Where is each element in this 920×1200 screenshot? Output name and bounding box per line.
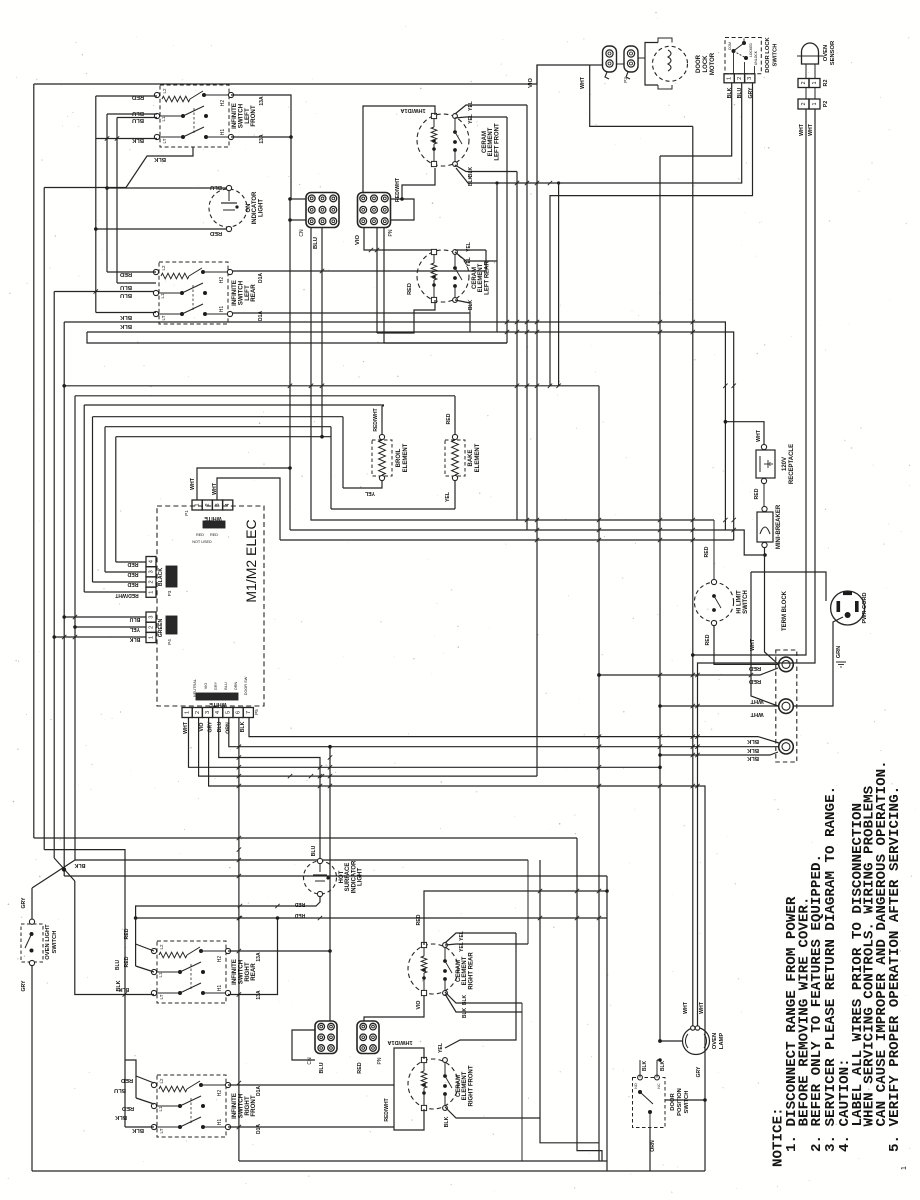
svg-text:MINI-BREAKER: MINI-BREAKER — [776, 504, 782, 549]
wire P5 pin4 BLU to hot surface light — [219, 718, 320, 862]
svg-text:WHT: WHT — [212, 482, 218, 495]
svg-text:2: 2 — [149, 626, 155, 629]
svg-text:1: 1 — [149, 591, 155, 594]
svg-text:BLU: BLU — [311, 845, 317, 856]
svg-text:CERAM: CERAM — [456, 960, 462, 982]
CN lower left loop — [292, 1030, 315, 1060]
svg-text:YEL: YEL — [459, 931, 465, 941]
connector CN lower — [307, 1021, 337, 1065]
oven sensor — [797, 40, 836, 65]
wire bottom bus BLK — [32, 1170, 705, 1172]
wire WHT drop — [590, 65, 693, 126]
svg-text:P2: P2 — [623, 77, 628, 83]
ceramic element left front — [417, 113, 500, 166]
svg-text:YEL: YEL — [468, 114, 474, 124]
svg-text:WHITE: WHITE — [204, 515, 222, 521]
door lock switch — [725, 36, 779, 73]
wires into right front switch — [125, 1060, 136, 1098]
svg-text:4: 4 — [225, 503, 231, 506]
svg-text:7: 7 — [246, 711, 252, 714]
hot surface indicator light — [304, 858, 364, 896]
svg-text:BLK: BLK — [468, 299, 474, 310]
wire GRY door lock staircase — [550, 83, 753, 386]
svg-text:P1: P1 — [184, 510, 189, 516]
svg-text:BLU: BLU — [210, 184, 222, 190]
bus y849 — [44, 850, 125, 860]
svg-text:VIO: VIO — [416, 1001, 422, 1010]
bus y415 — [93, 416, 344, 418]
svg-text:HI LIMIT: HI LIMIT — [737, 590, 743, 614]
svg-text:1: 1 — [812, 102, 818, 105]
wire P5 pin7 BLK to term block — [249, 718, 779, 744]
svg-text:RED: RED — [446, 413, 452, 424]
wire P2 sensor WHT 2 — [698, 109, 816, 1027]
svg-text:CN: CN — [299, 229, 305, 237]
wire receptacle to breaker RED — [763, 483, 765, 506]
svg-text:GREEN: GREEN — [158, 619, 164, 638]
svg-text:YEL: YEL — [468, 101, 474, 111]
svg-text:OVEN: OVEN — [712, 1033, 718, 1049]
crossing hops in P5 area — [237, 745, 241, 749]
wire top horizontal from corner — [34, 83, 537, 85]
svg-text:NC: NC — [657, 1083, 661, 1089]
svg-text:RED: RED — [124, 956, 130, 967]
svg-text:WHT: WHT — [808, 123, 814, 136]
wire WHT long vertical to oven lamp — [692, 126, 694, 1027]
wire P5 pin2 VIO — [199, 718, 537, 777]
left verticals bundle — [43, 188, 45, 850]
svg-text:BLK: BLK — [119, 314, 132, 320]
svg-text:WHT: WHT — [699, 1001, 705, 1014]
svg-text:1: 1 — [149, 636, 155, 639]
wire hi limit top RED — [713, 520, 715, 579]
svg-text:3: 3 — [205, 711, 211, 714]
connector P1 — [192, 500, 233, 510]
wire BLU door lock staircase to element — [456, 83, 742, 184]
wire x599 long vertical — [598, 386, 600, 1161]
svg-text:REAR: REAR — [250, 284, 257, 302]
svg-text:4: 4 — [215, 711, 221, 714]
wire elem LR outer loop — [384, 227, 507, 343]
svg-text:5. VERIFY PROPER OPERATION AFT: 5. VERIFY PROPER OPERATION AFTER SERVICI… — [887, 786, 903, 1152]
wire VIO elem RR to connector — [364, 994, 424, 1021]
svg-text:WHT: WHT — [750, 638, 756, 651]
svg-text:NO: NO — [634, 1083, 638, 1089]
svg-text:BLK: BLK — [131, 1127, 144, 1133]
svg-text:P3: P3 — [167, 590, 172, 596]
svg-text:FRONT: FRONT — [250, 1095, 257, 1117]
svg-text:3: 3 — [747, 77, 753, 80]
wire BLK bus stud3 — [660, 752, 778, 755]
connector P2 — [798, 99, 820, 109]
svg-text:3: 3 — [215, 503, 221, 506]
svg-text:L2: L2 — [159, 1078, 164, 1084]
wire H2 right front — [228, 1084, 394, 1086]
bus y436 — [116, 436, 331, 438]
svg-text:RED/WHT: RED/WHT — [115, 592, 138, 598]
svg-text:LAMP: LAMP — [719, 1033, 725, 1050]
svg-text:D1A: D1A — [256, 1086, 262, 1096]
svg-text:LT: LT — [162, 138, 167, 143]
svg-text:2: 2 — [195, 711, 201, 714]
svg-text:1HW/D1A: 1HW/D1A — [400, 107, 425, 113]
svg-text:BLK: BLK — [746, 738, 759, 744]
wire CN pin to bus — [321, 227, 323, 437]
svg-text:WHT: WHT — [683, 1001, 689, 1014]
svg-text:BLK: BLK — [153, 156, 166, 162]
svg-text:VIO: VIO — [204, 683, 208, 690]
wire x607 — [606, 876, 608, 1171]
svg-text:RIGHT REAR: RIGHT REAR — [468, 952, 474, 990]
svg-text:13A: 13A — [259, 96, 265, 106]
connector PN lower — [357, 1021, 383, 1064]
door position switch — [633, 1075, 691, 1127]
svg-text:BLU: BLU — [132, 110, 144, 116]
svg-text:PN: PN — [377, 1057, 383, 1064]
svg-text:D1A: D1A — [256, 1124, 262, 1134]
connector P5 — [182, 708, 253, 718]
svg-text:ELEMENT: ELEMENT — [462, 1071, 468, 1100]
svg-text:LOCKED: LOCKED — [749, 42, 753, 56]
wire broil bottom — [343, 481, 382, 488]
wire plugs — [617, 63, 625, 65]
svg-text:BLACK: BLACK — [158, 568, 164, 586]
svg-text:2: 2 — [737, 77, 743, 80]
connector PN — [358, 193, 395, 237]
svg-text:1: 1 — [727, 77, 733, 80]
svg-text:H1: H1 — [217, 1119, 223, 1126]
svg-text:BLU: BLU — [319, 1062, 325, 1073]
svg-text:INDICATOR: INDICATOR — [351, 860, 357, 893]
wire RED/WHT from element — [402, 168, 435, 199]
svg-text:BLK: BLK — [642, 1060, 648, 1071]
svg-text:M1/M2 ELEC: M1/M2 ELEC — [243, 519, 259, 602]
wire bottom-right wrap — [540, 860, 599, 1143]
svg-text:RED: RED — [121, 1077, 133, 1083]
wire P2 sensor WHT 1 — [693, 109, 806, 655]
svg-text:2: 2 — [801, 102, 807, 105]
wire RED bus y918 — [136, 917, 607, 919]
svg-text:YEL: YEL — [466, 257, 472, 267]
wire H1 right front — [228, 1126, 394, 1128]
svg-text:BLK: BLK — [444, 1116, 450, 1127]
bus y520 — [311, 227, 714, 520]
svg-text:VIO: VIO — [355, 235, 361, 245]
svg-text:OVEN: OVEN — [823, 45, 829, 61]
infinite switch left rear — [153, 262, 264, 324]
svg-text:RED: RED — [416, 914, 422, 925]
svg-text:1HW/D1A: 1HW/D1A — [387, 1039, 412, 1045]
wire PN loop bottom — [376, 227, 378, 333]
bus y838 — [34, 837, 577, 839]
svg-text:H2: H2 — [219, 277, 225, 284]
wire bus RED to stud1 — [599, 668, 778, 675]
svg-text:2: 2 — [801, 81, 807, 84]
svg-text:LIGHT: LIGHT — [358, 868, 364, 886]
wire BLK center long vertical — [659, 156, 661, 1041]
wire LR H1 wrap y332 — [87, 313, 470, 332]
svg-text:ELEMENT: ELEMENT — [488, 127, 494, 156]
svg-text:YEL: YEL — [445, 491, 451, 502]
wires indicator light — [107, 187, 226, 189]
svg-text:LEFT FRONT: LEFT FRONT — [494, 123, 500, 161]
svg-text:BLK: BLK — [119, 323, 132, 329]
svg-text:120V: 120V — [782, 457, 788, 471]
svg-text:GRY: GRY — [21, 897, 27, 909]
svg-text:BLU: BLU — [115, 959, 121, 970]
svg-text:RED: RED — [132, 94, 144, 100]
wire VIO PN to left rear element — [364, 227, 431, 250]
bus y530 — [290, 530, 765, 555]
svg-text:RED: RED — [704, 546, 710, 557]
svg-text:ORN: ORN — [234, 682, 238, 691]
svg-text:2: 2 — [205, 503, 211, 506]
svg-text:WHITE: WHITE — [209, 701, 227, 707]
svg-text:1: 1 — [195, 503, 201, 506]
wires BLK elem LF — [455, 165, 517, 172]
svg-text:SWITCH: SWITCH — [52, 931, 58, 954]
svg-text:ELEMENT: ELEMENT — [475, 443, 481, 472]
svg-text:RED/WHT: RED/WHT — [373, 408, 379, 431]
svg-text:TERM BLOCK: TERM BLOCK — [782, 590, 788, 631]
term block — [776, 590, 797, 762]
svg-text:D1A: D1A — [258, 273, 264, 283]
wires P1 WHT — [197, 468, 290, 500]
wire x125 lower — [124, 860, 126, 1127]
wire elem LF left rect — [363, 106, 435, 193]
svg-text:WHT: WHT — [190, 477, 196, 490]
svg-text:BLU: BLU — [120, 284, 132, 290]
oven lamp — [683, 1026, 726, 1055]
wire H1 right rear — [228, 918, 278, 995]
mini breaker — [757, 504, 782, 549]
wire RED elem RR — [424, 891, 607, 945]
svg-text:1: 1 — [812, 81, 818, 84]
svg-text:3: 3 — [149, 570, 155, 573]
svg-text:REAR: REAR — [250, 963, 257, 981]
svg-text:13A: 13A — [256, 952, 262, 962]
svg-text:3: 3 — [149, 616, 155, 619]
svg-text:LIGHT: LIGHT — [258, 199, 264, 217]
svg-text:BAKE: BAKE — [468, 449, 474, 466]
wire BLK outer left vertical — [33, 84, 35, 838]
bus y426 — [105, 426, 331, 428]
wire RED lamp to switch — [137, 896, 320, 906]
wrap wires upper-left — [54, 291, 157, 293]
connector CN — [299, 193, 339, 237]
svg-text:L1: L1 — [160, 293, 165, 299]
wire wrap y322 long — [64, 322, 725, 530]
svg-text:SWITCH: SWITCH — [743, 590, 749, 614]
svg-text:5: 5 — [225, 711, 231, 714]
svg-text:BLK: BLK — [468, 166, 474, 177]
svg-text:BLK: BLK — [118, 986, 129, 992]
svg-text:P4: P4 — [167, 639, 172, 645]
wires YEL elem RR — [445, 933, 516, 943]
hi limit switch — [694, 579, 749, 625]
on indicator light — [209, 185, 264, 231]
svg-text:PN: PN — [388, 229, 394, 236]
svg-text:YEL: YEL — [438, 1042, 444, 1053]
svg-text:MOTOR: MOTOR — [710, 52, 716, 75]
bus y540 — [280, 539, 734, 541]
control board M1/M2 ELEC — [157, 506, 264, 706]
wire P5 pin3 GRY — [209, 718, 705, 1172]
wires P4 — [64, 616, 146, 618]
wire bake bottom YEL — [454, 481, 456, 509]
svg-text:CERAM: CERAM — [482, 131, 488, 153]
bus y406 — [84, 404, 384, 406]
wires YEL elem LF — [455, 105, 527, 114]
svg-text:ON: ON — [246, 204, 252, 213]
svg-text:BLU: BLU — [313, 237, 319, 249]
wire breaker to term block — [765, 547, 779, 664]
wire y343 wrap — [96, 342, 507, 344]
svg-text:LOCK: LOCK — [703, 55, 709, 73]
bus y385 — [64, 385, 599, 387]
svg-text:VIO: VIO — [199, 723, 205, 732]
svg-text:NEUTRAL: NEUTRAL — [193, 679, 197, 697]
svg-text:UNLOCK: UNLOCK — [754, 50, 758, 65]
wire receptacle top WHT — [725, 422, 764, 444]
svg-text:ELEMENT: ELEMENT — [403, 443, 409, 472]
svg-text:GRY: GRY — [748, 87, 754, 99]
wire P5 pin1 WHT — [189, 718, 661, 768]
svg-text:HOT: HOT — [339, 870, 345, 883]
wire BLK from X junction to right rear switch — [75, 881, 154, 995]
svg-text:L1: L1 — [158, 1106, 163, 1112]
broil element — [372, 434, 409, 480]
connector P4 — [146, 612, 156, 643]
svg-text:WHT: WHT — [750, 698, 764, 704]
svg-text:WHT: WHT — [580, 76, 586, 89]
svg-text:RED: RED — [407, 283, 413, 295]
svg-text:BLK: BLK — [746, 755, 759, 761]
svg-text:ELEMENT: ELEMENT — [462, 956, 468, 985]
svg-text:BLK: BLK — [746, 747, 759, 753]
door lock connector 1 2 3 — [724, 74, 755, 83]
svg-text:CN: CN — [307, 1057, 313, 1065]
svg-text:RED: RED — [124, 928, 130, 939]
wire GRY oven light switch feed — [31, 888, 33, 922]
svg-text:2: 2 — [149, 580, 155, 583]
svg-text:GRY: GRY — [21, 980, 27, 992]
svg-text:INDICATOR: INDICATOR — [252, 191, 258, 224]
svg-text:BLK: BLK — [468, 175, 474, 186]
svg-text:WHT: WHT — [799, 123, 805, 136]
connector P3 — [146, 557, 156, 598]
wire VIO long vertical — [536, 65, 538, 776]
svg-text:GRY: GRY — [696, 1066, 702, 1077]
power cord — [831, 591, 868, 625]
wires into left front switch — [96, 95, 157, 97]
svg-text:BLK: BLK — [114, 1114, 127, 1120]
svg-text:DOOR: DOOR — [696, 54, 702, 73]
bus y860 — [75, 859, 528, 861]
wire hi limit bottom RED — [714, 625, 778, 664]
svg-text:L1: L1 — [161, 116, 166, 122]
elem RF left rect RED/WHT — [394, 1048, 424, 1130]
wires door lock internal — [733, 51, 735, 74]
svg-text:YEL: YEL — [466, 242, 472, 252]
ceramic element right front — [408, 1057, 474, 1110]
svg-text:FRONT: FRONT — [250, 105, 257, 127]
svg-text:RED/WHT: RED/WHT — [395, 177, 401, 202]
svg-text:RECEPTACLE: RECEPTACLE — [789, 444, 795, 484]
svg-text:WHT: WHT — [750, 711, 764, 717]
wires BLK elem LR — [455, 300, 470, 303]
wires P3 — [116, 561, 146, 563]
wire y332 left hook — [87, 332, 96, 343]
svg-text:OVEN LIGHT: OVEN LIGHT — [45, 924, 51, 960]
wires BLK elem RR — [445, 992, 522, 1003]
notice text block — [771, 760, 904, 1167]
infinite switch left front — [154, 85, 265, 147]
oven light switch — [21, 919, 58, 966]
svg-text:LEFT REAR: LEFT REAR — [484, 261, 490, 295]
svg-text:DOOR LOCK: DOOR LOCK — [765, 36, 771, 72]
svg-text:BLK: BLK — [462, 994, 468, 1005]
bus y396 — [75, 395, 455, 397]
wire H2 left front to right — [231, 95, 291, 199]
svg-text:SURFACE: SURFACE — [345, 863, 351, 892]
bottom bus A — [239, 1160, 607, 1162]
wire oven lamp left — [660, 1040, 683, 1042]
svg-text:L1: L1 — [158, 972, 163, 978]
svg-text:BLU: BLU — [217, 721, 223, 732]
svg-text:1: 1 — [901, 1166, 908, 1170]
wires into right rear switch — [136, 906, 137, 966]
wire CN lower feed — [329, 747, 331, 1021]
junction X — [54, 858, 75, 881]
svg-text:POSITION: POSITION — [677, 1088, 683, 1116]
svg-text:L2: L2 — [159, 944, 164, 950]
infinite switch right front — [151, 1075, 262, 1137]
svg-text:R2: R2 — [823, 80, 829, 87]
svg-text:RED: RED — [294, 912, 305, 918]
svg-text:COM: COM — [728, 42, 732, 50]
svg-text:YEL: YEL — [459, 942, 465, 952]
wires CN left loop — [290, 198, 306, 200]
wire H1 left front — [231, 136, 291, 138]
svg-text:LT: LT — [161, 315, 166, 320]
bus y509 broil bake return — [331, 508, 455, 510]
wires into left rear switch — [107, 271, 156, 273]
svg-text:DOOR SW: DOOR SW — [244, 676, 248, 695]
svg-text:RIGHT FRONT: RIGHT FRONT — [468, 1065, 474, 1106]
svg-text:H2: H2 — [220, 100, 226, 107]
svg-text:H2: H2 — [217, 1090, 223, 1097]
wires YEL elem LR — [455, 249, 486, 251]
svg-text:BLK: BLK — [74, 862, 85, 868]
svg-text:13A: 13A — [259, 134, 265, 144]
svg-text:CERAM: CERAM — [472, 267, 478, 289]
svg-text:VIO: VIO — [528, 78, 534, 88]
wires PN right loop — [391, 199, 414, 220]
svg-text:YEL: YEL — [364, 490, 375, 496]
svg-text:LT: LT — [159, 1128, 164, 1133]
svg-text:1: 1 — [185, 711, 191, 714]
svg-text:NOT USED: NOT USED — [192, 540, 212, 544]
wire WHT bus stud2 — [660, 705, 778, 707]
svg-text:SWITCH: SWITCH — [684, 1091, 690, 1114]
svg-text:RED: RED — [196, 533, 204, 537]
wire VIO top — [537, 65, 589, 84]
svg-text:BLK: BLK — [660, 1060, 666, 1071]
svg-text:RED: RED — [705, 634, 711, 645]
wire RED bake — [454, 396, 456, 434]
wire WHT power cord — [751, 572, 826, 601]
